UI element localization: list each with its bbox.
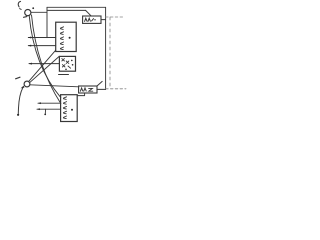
node dot near transducer T1 xyxy=(32,7,34,9)
dashed stub top right xyxy=(106,16,124,18)
U2 dot xyxy=(71,109,73,111)
S1 internal scatter marks xyxy=(62,59,65,61)
wire pair A2: T1 to block U2 xyxy=(32,15,61,104)
wire R1 to right rail xyxy=(101,19,106,21)
curved lead from T2 downward xyxy=(18,87,23,113)
tick mark near T2 xyxy=(16,77,20,79)
wire B2: T2 to block S1 xyxy=(29,56,59,82)
arrowhead blob at T2 xyxy=(21,86,25,89)
wire H4a into U2 xyxy=(38,102,61,104)
U1 dot xyxy=(69,37,71,39)
block U1 (upper IC box) xyxy=(56,22,76,51)
dashed vertical right xyxy=(109,17,111,89)
wire H3 into S1 with arrowhead xyxy=(29,63,59,65)
R2 internal marks xyxy=(80,88,86,91)
block R2 (bottom-right small box) xyxy=(79,86,97,93)
reference lead squiggle top-left xyxy=(18,1,21,9)
wire pair A1: T1 to block U2 xyxy=(29,16,61,98)
transducer T1 (top-left circle) xyxy=(25,10,31,16)
block U2 (lower IC box) xyxy=(61,95,78,122)
stub line below S1 xyxy=(59,74,69,76)
U2 pin glyphs xyxy=(63,97,66,100)
lead tick at R2 corner xyxy=(97,81,102,86)
U1 pin glyphs xyxy=(60,27,63,30)
wire vertical bus x=47 xyxy=(46,7,48,37)
wire second top horizontal xyxy=(47,9,86,11)
wire R2 to right rail xyxy=(97,88,106,90)
transducer T2 (bottom-left circle) xyxy=(24,81,30,87)
wire transducer T2 to R2 xyxy=(30,85,79,87)
block R1 (top-right small box) xyxy=(83,16,101,23)
R1 internal marks xyxy=(85,18,94,21)
wire top horizontal to right rail xyxy=(47,6,106,8)
connector U2 to R2 xyxy=(77,93,84,96)
end blob of curved lead xyxy=(17,114,19,116)
wire H1 into U1 with arrowhead xyxy=(28,37,55,39)
right rail vertical wire xyxy=(105,7,107,89)
block S1 (middle small box) xyxy=(59,56,75,71)
wire B1: T2 to block U1 xyxy=(29,50,56,81)
wire T1 to vertical bus xyxy=(31,11,47,13)
dashed stub bottom right xyxy=(106,88,126,90)
wire H4b into U2 xyxy=(37,108,61,110)
wire H2 into U1 with arrowhead xyxy=(28,45,55,47)
tick mark below transducer T1 xyxy=(24,16,27,19)
lead tick into block R1 xyxy=(86,10,91,15)
tick stub below H4b xyxy=(44,109,46,113)
